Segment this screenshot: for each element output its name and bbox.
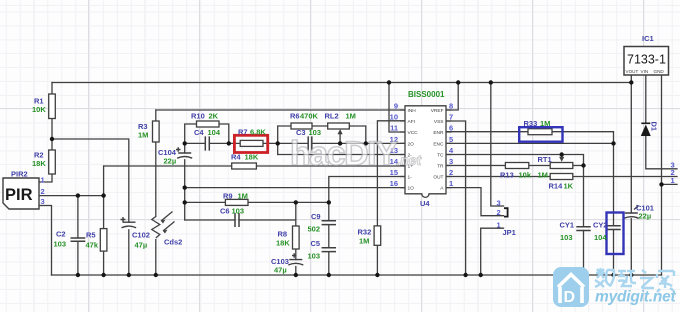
wire R9 row — [185, 201, 329, 203]
resistor R33 — [528, 129, 552, 135]
IC U4 left pin numbers — [390, 102, 399, 189]
capacitor CY2 — [606, 226, 620, 230]
wire IC pin3 row through R13 RT1 — [446, 165, 584, 167]
resistor R32 — [374, 226, 381, 245]
wire IC pin15 row — [329, 177, 405, 203]
capacitor C9 — [322, 221, 336, 225]
photoresistor Cds2 — [152, 212, 175, 239]
watermark hacDIY.net — [290, 137, 420, 171]
wire node A through C104 down — [184, 143, 186, 220]
wire main row pin12 — [185, 142, 405, 144]
wire C9 C5 column — [328, 202, 330, 275]
capacitor C4 — [205, 136, 209, 150]
wire R8 C103 column — [295, 202, 297, 275]
resistor R14 — [550, 174, 573, 180]
capacitor C3 — [308, 136, 312, 150]
wire IC pin11 to bus — [389, 83, 405, 133]
wire R6 RL2 loop — [278, 126, 366, 155]
wire IC pin2 row through R14 to connector — [446, 176, 677, 178]
wire PIR pin3 to ground — [39, 206, 52, 276]
wire IC pin4 row — [446, 155, 584, 166]
RT1 wiper arrowhead — [559, 157, 564, 162]
JP1 pin numbers — [497, 198, 501, 229]
resistor R2 — [49, 150, 56, 174]
resistor R6 — [291, 123, 312, 129]
wire IC pin5 row — [446, 142, 614, 144]
wire RL2 wiper — [339, 131, 341, 143]
wire VCC top bus — [52, 82, 631, 84]
wire IC pin13 row — [278, 154, 405, 156]
wire R5 branch — [103, 196, 105, 275]
wire CY2 column — [613, 143, 615, 275]
wire R3 Cds2 column — [155, 110, 157, 275]
blue highlight box around CY2 — [607, 213, 624, 255]
resistor R7 — [240, 140, 263, 146]
wire R10 C4 loop — [185, 124, 229, 143]
capacitor C6 — [235, 213, 239, 227]
connector PIR2 body — [3, 178, 39, 209]
resistor R5 — [100, 229, 107, 252]
wire PIR pin2 row — [39, 195, 104, 197]
wire IC pin9 row — [156, 109, 405, 111]
resistor R9 — [225, 199, 248, 205]
capacitor C5 — [322, 248, 336, 252]
trimmer RT1 — [550, 163, 573, 169]
wire IC pin16 row — [185, 187, 405, 189]
wire C6 row — [185, 219, 296, 221]
resistor R1 — [49, 94, 56, 119]
resistor R4 — [232, 163, 257, 169]
capacitor C2 — [71, 238, 86, 241]
svg-text:D: D — [564, 289, 576, 306]
wire 7133 VOUT to bus and C101 — [630, 75, 632, 275]
wire IC pin8 to bus — [446, 83, 458, 111]
wire C2 branch — [77, 196, 79, 275]
IC U4 right pin numbers — [449, 102, 454, 189]
7133 pin names — [626, 69, 665, 74]
wire 7133 VIN to D1 — [645, 75, 647, 123]
watermark chinese text — [595, 268, 674, 292]
capacitor CY1 — [576, 227, 590, 231]
capacitor C103 electrolytic — [288, 253, 303, 265]
diode D1 — [641, 122, 659, 137]
wire JP1 pin1 to ground — [481, 228, 504, 275]
wire C102 bottom to ground — [128, 230, 130, 275]
red highlight box around R7 — [234, 135, 267, 152]
wire IC pin6 row through R33 — [446, 132, 614, 144]
resistor R13 — [505, 163, 528, 169]
PIR pin numbers — [41, 176, 45, 207]
potentiometer RL2 — [328, 123, 350, 129]
wire CY1 column — [583, 166, 585, 276]
wire R1 to R2 node and to C102 top — [52, 119, 129, 223]
capacitor C104 electrolytic — [176, 147, 192, 158]
resistor R10 — [197, 121, 220, 127]
wire D1 to connector pin3 — [646, 136, 677, 169]
IC U4 pin names — [408, 108, 419, 192]
resistor R8 — [293, 226, 300, 249]
capacitor C101 electrolytic — [624, 205, 639, 218]
wire VSS pin7 to ground — [446, 121, 466, 275]
wire bus to JP1 pin3 — [491, 83, 504, 207]
wire IC pin10 to R32 to ground — [377, 121, 405, 275]
wire RT1 wiper — [561, 155, 563, 158]
blue highlight box around R33 — [519, 127, 562, 142]
wire 7133 GND to ground — [661, 75, 663, 275]
wire R1 branch from bus — [51, 83, 53, 95]
capacitor C102 electrolytic — [121, 217, 137, 228]
wire R4 row to IC pin14 — [104, 165, 405, 167]
wire connector pin1 stub — [662, 183, 678, 185]
battery connector pin numbers — [671, 160, 675, 185]
wire pin2 node up to R4 row — [103, 166, 105, 196]
resistor R3 — [153, 121, 160, 142]
svg-text:mydigit.net: mydigit.net — [595, 289, 677, 306]
op-amp IC U4 BISS0001 body — [400, 106, 452, 198]
wire R2 to PIR pin1 — [39, 174, 52, 182]
jumper JP1 bracket — [504, 208, 508, 216]
wire IC pin1 to JP1 pin2 — [446, 188, 504, 216]
RL2 wiper arrowhead — [338, 129, 343, 134]
wire ground bottom bus — [52, 274, 662, 276]
regulator IC1 7133-1 body — [624, 47, 669, 76]
